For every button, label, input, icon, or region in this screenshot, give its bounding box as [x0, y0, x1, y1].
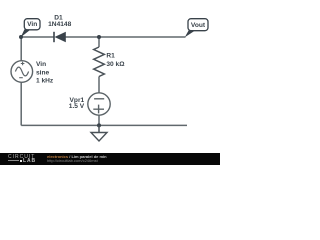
- svg-text:Vin: Vin: [27, 21, 37, 28]
- wire: bottom rail: [21, 124, 187, 126]
- node B: R1 top junction dot: [97, 35, 101, 39]
- wire: R1 junction stub down to resistor: [98, 37, 100, 47]
- flag Vin: [21, 19, 40, 38]
- resistor R1: [94, 47, 105, 77]
- node A: Vin top-left junction dot: [19, 35, 23, 39]
- wire: resistor bottom to Vpr1 top: [98, 77, 100, 94]
- wire: Vpr1 bottom to bottom-rail junction: [98, 115, 100, 125]
- diode D1: [54, 32, 66, 42]
- CircuitLab logo: [8, 155, 36, 164]
- svg-text:1N4148: 1N4148: [48, 21, 71, 28]
- wire: top rail from Vin node to diode: [21, 36, 54, 38]
- svg-text:Vout: Vout: [191, 22, 206, 29]
- svg-text:1.5 V: 1.5 V: [69, 103, 85, 110]
- svg-text:30 kΩ: 30 kΩ: [106, 61, 125, 68]
- svg-text:1 kHz: 1 kHz: [36, 78, 54, 85]
- footer text: [47, 155, 107, 164]
- wire: diode to R1 junction: [66, 36, 100, 38]
- source V1 (Vin sine): [11, 61, 33, 83]
- svg-text:Vin: Vin: [36, 61, 46, 68]
- svg-text:sine: sine: [36, 69, 50, 76]
- source Vpr1: [88, 93, 110, 115]
- ground: [91, 125, 107, 141]
- footer bar: [0, 153, 220, 165]
- svg-text:R1: R1: [106, 53, 115, 60]
- wire: left vertical Vin node down to source: [20, 37, 22, 61]
- flag Vout: [185, 19, 208, 38]
- wire: source bottom down to bottom rail: [20, 83, 22, 126]
- wire: R1 junction to Vout flag tip: [99, 36, 186, 38]
- node C: ground junction dot: [97, 123, 101, 127]
